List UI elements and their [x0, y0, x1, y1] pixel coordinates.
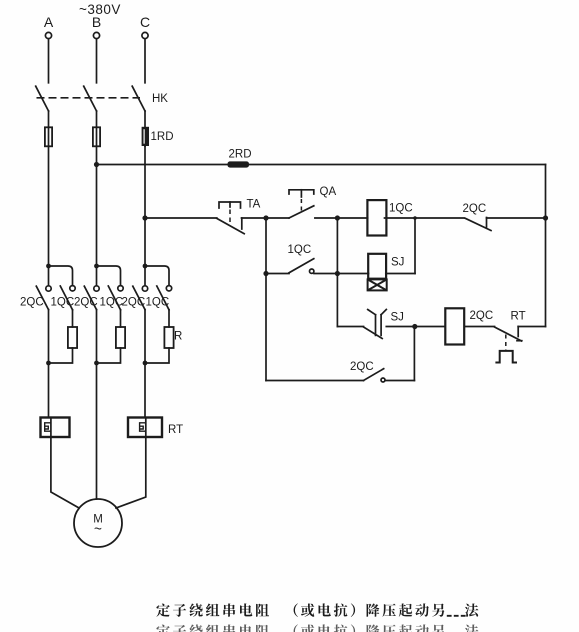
node row2 left rail: [263, 271, 268, 276]
node branch split phase at x=48.5: [46, 264, 51, 269]
svg-text:SJ: SJ: [391, 312, 404, 324]
coil SJ (time relay): [368, 254, 386, 279]
svg-text:2QC: 2QC: [74, 297, 98, 309]
fuse 1RD phase C: [142, 127, 149, 146]
wire phase A upper: [48, 39, 50, 83]
wire row1 QA to coil: [315, 217, 368, 219]
wire phase C to motor: [116, 437, 146, 508]
heater RT phase A: [41, 418, 70, 438]
wire phase A to fuse: [48, 111, 50, 146]
time element X-box: [368, 279, 387, 290]
svg-text:1QC: 1QC: [100, 297, 124, 309]
node rejoin: [94, 361, 99, 366]
wire branch arm: [49, 266, 73, 286]
wire phase A to heater: [48, 363, 50, 418]
contact RT NC thermal (row3): [495, 327, 522, 341]
wire heater C inside: [145, 418, 147, 438]
coil 2QC: [445, 308, 464, 344]
wire phase A heater top link: [49, 417, 51, 419]
node row3 link: [412, 324, 417, 329]
contact 2QC NO self-hold (row4): [364, 369, 384, 381]
contactor contact 1QC (right): [70, 286, 75, 291]
svg-text:2QC: 2QC: [20, 297, 44, 309]
wire resistor to rejoin: [145, 348, 169, 363]
wire mid vertical: [336, 218, 338, 327]
wire top rail right of fuse 2RD: [249, 164, 546, 166]
terminal A: [45, 32, 51, 38]
wire main down to contact: [48, 266, 50, 286]
caption 定子绕组串电阻（或电抗）降压起动另一法: [156, 603, 478, 616]
svg-text:B: B: [92, 14, 101, 30]
resistor branch wire: [168, 310, 170, 327]
node row2 mid: [335, 271, 340, 276]
svg-text:~: ~: [94, 522, 102, 537]
wire link row4-row3: [413, 327, 415, 381]
fuse phase B: [93, 127, 100, 146]
thermal relay dashes: [505, 335, 507, 351]
thermal relay element symbol: [495, 351, 517, 363]
wire phase B to fuse: [96, 111, 98, 146]
wire row3 to 2QC coil: [386, 326, 445, 328]
wire below left contact: [144, 310, 146, 363]
wire main down to contact: [144, 266, 146, 286]
wire phase B fuse to branch: [96, 146, 98, 266]
wire below left contact: [96, 310, 98, 363]
node branch split phase at x=145.0: [143, 264, 148, 269]
wire left rail vertical: [265, 218, 267, 381]
svg-text:2RD: 2RD: [229, 149, 252, 161]
wire row1 from phase C: [145, 217, 217, 219]
svg-text:2QC: 2QC: [350, 361, 374, 373]
resistor element: [116, 327, 125, 348]
coil 1QC: [367, 200, 386, 235]
node row1 left rail: [263, 215, 268, 220]
wire row1 to right rail: [487, 217, 546, 219]
wire right rail: [545, 165, 547, 327]
svg-text:2QC: 2QC: [470, 310, 494, 322]
wire row3 coil to RT: [465, 326, 495, 328]
switch HK blade phase A: [36, 86, 49, 111]
wire link row1-row2: [414, 218, 416, 274]
node rejoin: [46, 361, 51, 366]
wire phase A to motor: [51, 437, 79, 508]
fuse phase A: [45, 127, 52, 146]
svg-text:1QC: 1QC: [288, 244, 312, 256]
wire top rail left of fuse 2RD: [97, 164, 228, 166]
contact SJ delayed NO (row3): [364, 327, 383, 339]
contact 1QC NO self-hold (row2): [266, 273, 289, 275]
contact 2QC NC (row1): [465, 218, 491, 230]
wire row1 coil to 2QC contact: [385, 217, 464, 219]
wire branch arm: [145, 266, 169, 286]
svg-text:RT: RT: [511, 311, 526, 323]
contactor contact 2QC (left): [142, 286, 147, 291]
wire resistor to rejoin: [49, 348, 73, 363]
wire below left contact: [48, 310, 50, 363]
wire phase B upper: [96, 39, 98, 83]
svg-text:HK: HK: [152, 93, 168, 105]
svg-text:2QC: 2QC: [463, 203, 487, 215]
wire phase C fuse to branch: [144, 146, 146, 266]
wire phase A fuse to branch: [48, 146, 50, 266]
wire row2 to SJ coil: [337, 273, 368, 275]
svg-text:1QC: 1QC: [389, 203, 413, 215]
wire resistor to rejoin: [97, 348, 121, 363]
svg-text:A: A: [44, 14, 54, 30]
node row1 right rail: [543, 215, 548, 220]
svg-text:RT: RT: [168, 424, 183, 436]
contactor contact 2QC (left): [46, 286, 51, 291]
wire phase A heater inside: [50, 418, 52, 438]
wire main down to contact: [96, 266, 98, 286]
node top rail tap on phase B: [94, 162, 99, 167]
svg-text:2QC: 2QC: [122, 297, 146, 309]
wire row1 TA to node: [242, 217, 290, 219]
wire row2 coil to link: [386, 273, 415, 275]
faint cut-off duplicate caption at bottom edge: [156, 624, 478, 632]
heater RT phase C: [128, 418, 162, 438]
switch HK blade phase C: [132, 86, 145, 111]
wire phase C upper: [144, 39, 146, 83]
fuse 2RD: [228, 161, 250, 167]
contactor contact 1QC (right): [166, 286, 171, 291]
switch HK linkage dashed: [37, 97, 141, 99]
svg-text:C: C: [140, 14, 150, 30]
wire phase C to fuse: [144, 111, 146, 146]
resistor branch wire: [120, 310, 122, 327]
resistor element: [68, 327, 77, 348]
contactor contact 1QC (right): [118, 286, 123, 291]
resistor branch wire: [72, 310, 74, 327]
resistor element: [164, 327, 173, 348]
wire branch arm: [97, 266, 121, 286]
node row1 mid: [335, 215, 340, 220]
node branch split phase at x=96.5: [94, 264, 99, 269]
wire phase C to heater: [144, 363, 146, 418]
svg-text:1RD: 1RD: [151, 131, 174, 143]
terminal B: [93, 32, 99, 38]
wire row4 from left rail: [266, 380, 364, 382]
motor M: [74, 499, 122, 547]
svg-text:1QC: 1QC: [146, 297, 170, 309]
contactor contact 2QC (left): [94, 286, 99, 291]
switch HK blade phase B: [84, 86, 97, 111]
svg-text:R: R: [174, 331, 182, 343]
wire phase B to motor: [96, 363, 98, 499]
svg-text:TA: TA: [247, 199, 261, 211]
terminal C: [142, 32, 148, 38]
svg-text:SJ: SJ: [391, 257, 404, 269]
start button QA: [289, 190, 314, 194]
node control tap on phase C: [142, 215, 147, 220]
wire row3 from mid vertical: [337, 326, 363, 328]
svg-text:1QC: 1QC: [51, 297, 75, 309]
stop button TA: [219, 202, 241, 208]
node rejoin: [143, 361, 148, 366]
svg-text:QA: QA: [320, 186, 337, 198]
